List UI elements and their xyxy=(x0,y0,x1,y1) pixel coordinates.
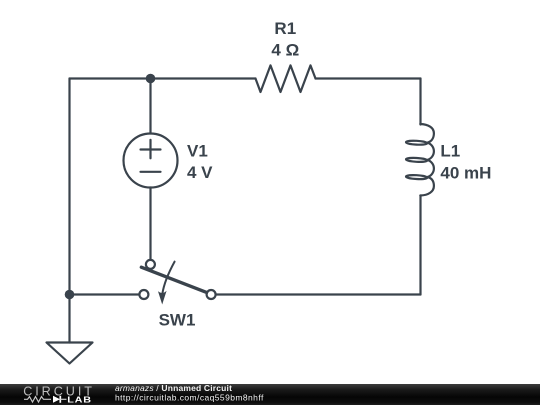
V1 minus sign xyxy=(141,171,161,173)
resistor R1 xyxy=(256,65,316,92)
svg-text:http://circuitlab.com/caq559bm: http://circuitlab.com/caq559bm8nhff xyxy=(115,393,264,403)
svg-text:V1: V1 xyxy=(187,142,208,161)
ground stem wire xyxy=(68,295,70,343)
wire bottom left segment (SW1 left terminal to node) xyxy=(70,293,140,295)
wire right vertical upper xyxy=(419,79,421,125)
svg-text:R1: R1 xyxy=(274,19,296,38)
wire left vertical (top-left corner down to bottom node) xyxy=(68,79,70,295)
switch SW1 left terminal xyxy=(139,290,148,299)
ground symbol triangle xyxy=(47,343,93,364)
node junction at V1 top xyxy=(146,74,156,84)
wire V1 bottom stem xyxy=(149,188,151,261)
wire right vertical lower xyxy=(419,196,421,295)
voltage source V1 circle xyxy=(124,134,178,188)
wire top horizontal right segment xyxy=(316,77,421,79)
footer black bar xyxy=(0,384,540,405)
wire bottom right segment (to SW1 right terminal) xyxy=(216,293,421,295)
switch SW1 actuation arc arrow xyxy=(158,262,175,305)
node junction at ground/bottom wire xyxy=(65,290,75,300)
svg-text:armanazs / Unnamed Circuit: armanazs / Unnamed Circuit xyxy=(115,383,232,393)
switch SW1 top terminal xyxy=(146,260,155,269)
switch SW1 blade xyxy=(141,267,206,292)
svg-text:4 V: 4 V xyxy=(187,163,213,182)
CircuitLab logo schematic: resistor zigzag xyxy=(24,397,51,402)
svg-text:L1: L1 xyxy=(440,141,460,160)
svg-text:LAB: LAB xyxy=(67,396,92,405)
CircuitLab logo schematic: diode xyxy=(53,396,67,403)
V1 plus sign xyxy=(141,140,161,159)
svg-text:40 mH: 40 mH xyxy=(440,164,491,183)
svg-text:4 Ω: 4 Ω xyxy=(271,41,299,60)
inductor L1 xyxy=(406,124,434,196)
switch SW1 right terminal xyxy=(207,290,216,299)
svg-text:SW1: SW1 xyxy=(159,311,196,330)
wire V1 top stem xyxy=(149,79,151,134)
wire top horizontal left segment xyxy=(70,77,256,79)
